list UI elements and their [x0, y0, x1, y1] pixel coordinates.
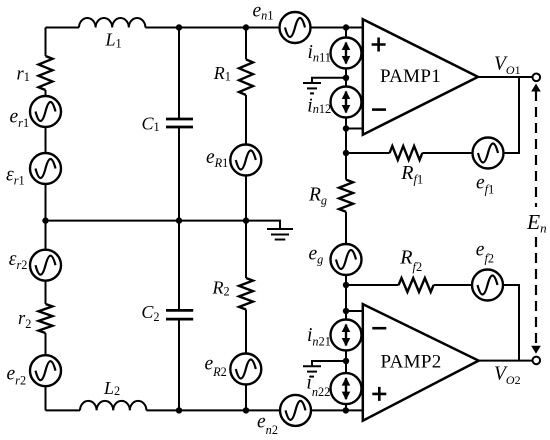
svg-text:PAMP1: PAMP1	[380, 66, 441, 87]
svg-text:PAMP2: PAMP2	[381, 352, 442, 373]
